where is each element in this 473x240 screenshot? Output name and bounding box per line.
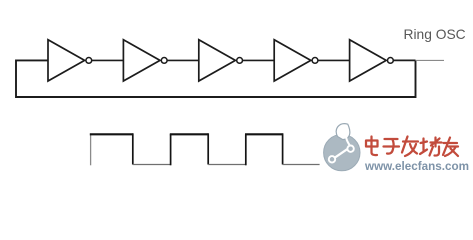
wire U1-U2 bbox=[92, 59, 124, 61]
char fa bbox=[402, 137, 418, 157]
watermark chinese white bevel layer bbox=[364, 135, 456, 155]
svg-text:Ring OSC: Ring OSC bbox=[404, 27, 466, 42]
wire U2-U3 bbox=[167, 59, 199, 61]
waveform fall 3 bbox=[282, 133, 284, 164]
waveform pulse 3 top bbox=[245, 133, 283, 135]
wire U3-U4 bbox=[243, 59, 275, 61]
output stub wire bbox=[416, 59, 445, 61]
waveform fall 2 bbox=[207, 133, 209, 164]
wire U5 output to junction bbox=[393, 59, 415, 61]
inverter U4 bbox=[274, 40, 318, 81]
inverter U5 bbox=[350, 40, 394, 81]
waveform low 3 tail bbox=[283, 164, 320, 166]
char zi bbox=[384, 139, 400, 154]
waveform first rising edge bbox=[90, 134, 92, 165]
char shao bbox=[420, 138, 442, 156]
watermark logo disc bbox=[324, 124, 360, 171]
watermark chinese characters red layer bbox=[366, 137, 458, 157]
feedback loop wire bbox=[16, 60, 416, 97]
waveform pulse 1 top bbox=[90, 133, 133, 135]
inverter U2 bbox=[123, 40, 167, 81]
waveform low 2 bbox=[208, 164, 246, 166]
waveform rise 3 bbox=[245, 134, 247, 165]
wire U4-U5 bbox=[318, 59, 350, 61]
svg-text:www.elecfans.com: www.elecfans.com bbox=[364, 159, 469, 173]
waveform fall 1 bbox=[132, 133, 134, 164]
inverter U1 bbox=[48, 40, 92, 81]
waveform rise 2 bbox=[170, 134, 172, 165]
inverter U3 bbox=[199, 40, 243, 81]
waveform low 1 bbox=[133, 164, 171, 166]
waveform pulse 2 top bbox=[170, 133, 208, 135]
char you bbox=[443, 138, 458, 157]
char dian bbox=[366, 137, 378, 156]
